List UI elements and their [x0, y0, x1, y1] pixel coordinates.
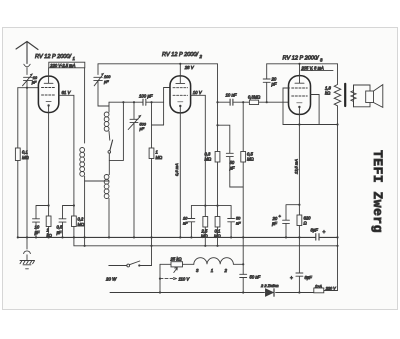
wire 50nF column — [242, 264, 244, 292]
svg-text:2: 2 — [199, 54, 203, 59]
svg-text:0,5: 0,5 — [57, 225, 63, 230]
svg-text:+: + — [323, 230, 326, 236]
node M-2 — [242, 291, 244, 293]
node — [122, 101, 124, 103]
svg-text:µF: µF — [140, 127, 145, 131]
node GND-14 — [242, 236, 244, 238]
svg-text:µF: µF — [104, 80, 109, 84]
svg-text:12,5 mA: 12,5 mA — [294, 159, 299, 174]
svg-text:MΩ: MΩ — [247, 157, 254, 162]
tube V3 RV12P2000/3 — [289, 76, 311, 115]
tube V2 anode stem and plate — [176, 64, 185, 84]
node GND-13 — [230, 236, 232, 238]
svg-text:10 nF: 10 nF — [226, 93, 237, 98]
svg-text:kΩ: kΩ — [325, 91, 331, 96]
svg-text:µF: µF — [57, 230, 62, 235]
tube V3 grids (dashed) — [292, 88, 308, 96]
svg-text:205 V, 8 mA: 205 V, 8 mA — [301, 65, 324, 70]
svg-text:8µF: 8µF — [311, 228, 319, 233]
main ground bus — [18, 236, 315, 238]
node — [150, 101, 152, 103]
svg-text:+: + — [290, 276, 293, 282]
node GND-5 — [61, 236, 63, 238]
svg-text:500: 500 — [140, 122, 147, 126]
wire B+ column down — [337, 125, 339, 291]
wire screen tap — [311, 95, 320, 125]
transformer T1 primary (zigzag) — [334, 64, 341, 125]
rheostat R11 25k — [160, 263, 171, 265]
svg-text:25 kΩ: 25 kΩ — [170, 256, 183, 261]
resistor R4 1M (grid leak) — [151, 102, 153, 148]
wire V2 grid bracket — [152, 88, 171, 126]
AF line — [217, 64, 219, 152]
svg-text:28 V: 28 V — [184, 65, 195, 70]
wire rheostat left down — [159, 264, 161, 292]
svg-text:2: 2 — [224, 268, 228, 273]
coil L1 (anode choke) — [80, 148, 85, 177]
dashed -110V tap — [160, 278, 175, 280]
wire V3 screen bracket — [283, 88, 290, 125]
wire V1 anode bracket — [84, 68, 86, 143]
node — [242, 263, 244, 265]
tube V1 grids (dashed) — [42, 88, 56, 96]
svg-text:nF: nF — [183, 220, 188, 225]
resistor R9 0,5M — [242, 102, 244, 151]
node GND-7 — [84, 236, 86, 238]
svg-text:220 V: 220 V — [325, 287, 336, 291]
tube V1 anode stem and plate — [44, 68, 53, 84]
wire trimmer down to coil — [98, 81, 109, 106]
svg-text:20 W: 20 W — [105, 277, 117, 282]
wire V1 screen 61V — [59, 95, 74, 216]
antenna plug connector — [24, 64, 30, 74]
tube V1 cathode — [46, 101, 51, 103]
wire coupling link — [85, 180, 109, 182]
svg-text:50: 50 — [230, 160, 235, 165]
svg-text:MΩ: MΩ — [205, 157, 212, 162]
capacitor C15 50nF — [240, 274, 247, 277]
node H-2 — [150, 245, 152, 247]
node V3 anode — [298, 63, 300, 65]
svg-text:0,2: 0,2 — [78, 217, 84, 222]
B+ rail segment 1 — [98, 63, 218, 65]
node grid1 — [26, 87, 28, 89]
node GND-2 — [26, 236, 28, 238]
node — [298, 123, 300, 125]
node GND-4 — [48, 236, 50, 238]
node — [159, 278, 161, 280]
node GND-6 — [73, 236, 75, 238]
switch S1 (band switch) — [108, 131, 111, 140]
bracket 205V — [301, 70, 333, 72]
svg-text:61 V: 61 V — [62, 90, 72, 95]
label 220V 2,5mA (boxed) — [49, 62, 85, 68]
resistor R2 (V1 cathode) — [46, 216, 51, 227]
svg-text:nF: nF — [236, 220, 241, 225]
svg-text:µF: µF — [272, 221, 277, 226]
node H-4 — [216, 245, 218, 247]
resistor R6 0,3M — [215, 152, 220, 163]
node GND-17 — [336, 236, 338, 238]
capacitor C10 — [228, 206, 235, 238]
node — [298, 204, 300, 206]
capacitor C14 8uF electrolytic — [296, 237, 303, 292]
wire V2 output 10V — [191, 95, 206, 216]
node H-3 — [204, 245, 206, 247]
label 500 pF — [138, 115, 142, 118]
node M-1 — [159, 291, 161, 293]
node GND-12 — [190, 236, 192, 238]
svg-text:0,6 mA: 0,6 mA — [174, 163, 179, 176]
svg-text:10 V: 10 V — [193, 90, 203, 95]
resistor R7 0,1M — [215, 217, 220, 228]
bottom mains rail — [110, 292, 314, 294]
node GND-8 — [108, 236, 110, 238]
capacitor C7 10nF (series) — [230, 99, 233, 105]
svg-text:220 V·2,5 mA: 220 V·2,5 mA — [49, 63, 75, 68]
link wire — [191, 205, 231, 207]
resistor R10 620 Ohm — [297, 215, 302, 226]
svg-text:MΩ: MΩ — [156, 155, 163, 160]
svg-text:µF: µF — [35, 230, 40, 235]
wire screen to B+ link — [283, 124, 338, 126]
svg-text:TEFI Zwerg: TEFI Zwerg — [370, 150, 385, 233]
wire V2 cathode down — [179, 107, 181, 238]
capacitor C12 20uF (cathode bypass) — [283, 205, 300, 238]
speaker loop — [354, 85, 371, 107]
node — [336, 123, 338, 125]
wire to coil L3 — [108, 153, 110, 174]
capacitor C11 20pF feedback — [263, 64, 270, 102]
node GND-16 — [298, 236, 300, 238]
svg-text:RV 12 P 2000/: RV 12 P 2000/ — [162, 52, 200, 58]
node — [48, 204, 50, 206]
capacitor C8 50uF jog — [218, 125, 244, 187]
heater bus — [74, 237, 338, 245]
tube V2 grids (dashed) — [173, 88, 188, 96]
svg-text:1: 1 — [156, 150, 158, 155]
node GND-1 — [17, 236, 19, 238]
svg-text:1: 1 — [47, 228, 49, 233]
svg-text:MΩ: MΩ — [22, 155, 29, 160]
svg-text:50 nF: 50 nF — [250, 274, 261, 279]
svg-text:RV 12 P 2000/: RV 12 P 2000/ — [283, 56, 321, 62]
svg-text:100: 100 — [104, 75, 111, 79]
wire V3 cathode down — [298, 108, 300, 216]
svg-text:1×A: 1×A — [315, 283, 322, 288]
resistor R1 0.1M — [17, 88, 19, 238]
node — [216, 124, 218, 126]
speaker LS — [366, 91, 374, 103]
antenna — [16, 42, 38, 64]
transformer secondary — [351, 85, 356, 107]
capacitor C2 (V1 cathode bypass) — [33, 206, 49, 238]
svg-text:100 µF: 100 µF — [139, 93, 153, 98]
wire antenna column down — [26, 81, 28, 238]
node — [216, 101, 218, 103]
capacitor C3 (screen bypass) — [59, 206, 74, 238]
svg-text:2 2 Zellen: 2 2 Zellen — [260, 283, 279, 288]
transformer core — [344, 84, 346, 106]
mains switch S2 — [109, 265, 127, 267]
ground connector hook — [24, 238, 31, 261]
svg-text:RV 12 P 2000/: RV 12 P 2000/ — [35, 54, 73, 60]
node V2 anode — [179, 63, 181, 65]
node — [204, 205, 206, 207]
node M-3 — [298, 291, 300, 293]
svg-text:0,1: 0,1 — [22, 150, 28, 155]
node GND-10 — [150, 236, 152, 238]
node — [133, 101, 135, 103]
node — [242, 101, 244, 103]
tube V3 cathode — [297, 102, 302, 104]
svg-text:MΩ: MΩ — [78, 222, 85, 227]
wire L1 bottom down — [84, 176, 86, 246]
capacitor C-ant 10pF (variable) — [23, 75, 33, 86]
tube V1 RV12P2000/1 — [38, 76, 58, 112]
svg-text:pF: pF — [271, 82, 277, 87]
tube V2 RV12P2000/2 — [170, 76, 191, 113]
node H-5 — [336, 245, 338, 247]
tube V3 anode stem and plate — [295, 64, 304, 83]
coil L2 — [108, 102, 110, 112]
rheostat wiper arrow — [174, 268, 178, 273]
trimmer capacitor C4 100pF — [94, 64, 103, 86]
wire AF coupling line — [218, 101, 289, 103]
svg-text:0,3MΩ: 0,3MΩ — [248, 94, 260, 99]
node GND-3 — [35, 236, 37, 238]
node GND-11 — [179, 236, 181, 238]
rectifier D1 (selenium) — [266, 289, 274, 296]
coil L3 — [104, 175, 109, 199]
wire grid line tube1 — [18, 87, 39, 89]
node GND-15 — [285, 236, 287, 238]
capacitor C6 100pF coupling — [143, 99, 146, 105]
heater dropper coils (3 arches) — [194, 258, 243, 265]
node H-1 — [84, 245, 86, 247]
node — [73, 204, 75, 206]
resistor R3 (screen dropper) — [72, 216, 77, 227]
svg-text:µF: µF — [230, 165, 235, 170]
tube V2 cathode — [178, 101, 183, 103]
wire detector line — [109, 101, 164, 103]
wire V1 cathode down — [48, 106, 50, 216]
resistor R5 2,5M — [203, 217, 208, 228]
svg-text:110 V: 110 V — [179, 277, 191, 282]
capacitor C13 8uF+ (series in bus) — [316, 234, 319, 240]
label 100 pF — [101, 73, 104, 76]
node — [216, 205, 218, 207]
fuse F1 — [314, 288, 324, 293]
node — [266, 101, 268, 103]
capacitor C9 — [188, 206, 195, 238]
ground — [20, 261, 35, 269]
svg-text:µF: µF — [32, 80, 37, 84]
variable capacitor C5 500pF (tuning) — [128, 102, 140, 237]
label 10 pF — [30, 73, 33, 76]
svg-text:10: 10 — [35, 225, 40, 230]
node GND-9 — [133, 236, 135, 238]
resistor R8 0,3M (series) — [249, 100, 258, 104]
B+ rail segment 2 (V3 anode line) — [267, 63, 338, 65]
svg-text:8µF: 8µF — [305, 275, 313, 280]
